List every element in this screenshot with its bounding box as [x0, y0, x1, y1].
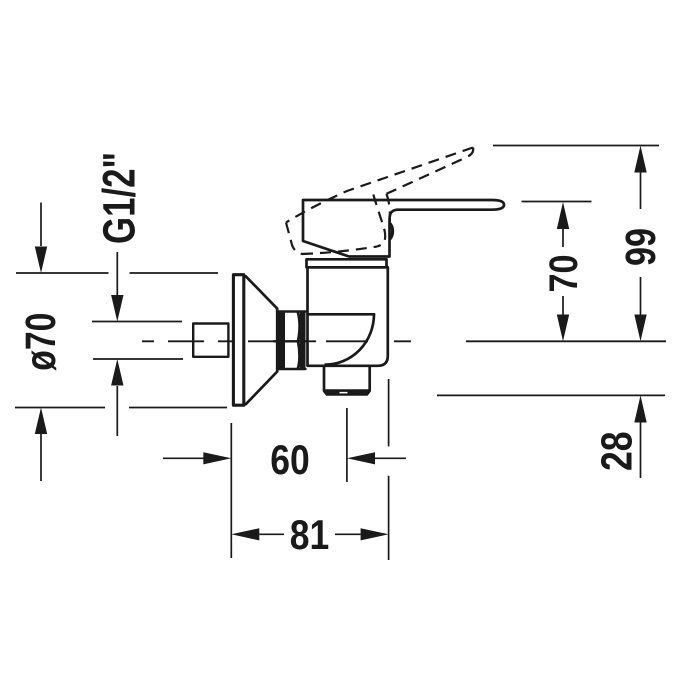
svg-text:G1/2": G1/2": [94, 152, 145, 244]
dim 99 bottom arrow: [640, 277, 642, 315]
raised lever dashed front edge: [373, 195, 385, 247]
hose outlet bottom band: [323, 389, 371, 396]
hex nut bottom edge: [278, 368, 306, 370]
extension line 28 bottom: [437, 394, 665, 396]
body inlet split line: [308, 313, 375, 316]
svg-text:28: 28: [592, 431, 641, 471]
hose outlet sides: [324, 366, 370, 390]
extension line 99 top: [493, 145, 659, 147]
escutcheon cone: [246, 276, 277, 404]
hex nut chamfer arc upper: [298, 312, 300, 341]
hex nut left face bar: [278, 311, 285, 369]
dim 99 top arrow: [640, 173, 642, 210]
dim 28 arrow: [640, 423, 642, 479]
cartridge collar ring: [307, 259, 387, 267]
dim 81 left arrow: [259, 533, 284, 535]
raised lever dashed fillet: [387, 194, 390, 222]
raised lever dashed underside: [387, 148, 474, 194]
hose outlet band highlight: [340, 392, 348, 394]
raised lever dashed bottom edge: [302, 247, 377, 255]
extension line body front: [388, 379, 390, 560]
dim 60 right arrow: [375, 457, 406, 459]
raised lever dashed rear edge: [286, 223, 302, 255]
extension line wall face: [230, 423, 232, 558]
svg-text:99: 99: [617, 228, 665, 266]
hex nut mid edge: [274, 340, 308, 342]
extension line G1/2 bottom: [93, 358, 183, 360]
lever handle (closed position, solid outline): [303, 200, 504, 257]
dim 70 bottom arrow: [562, 296, 564, 315]
escutcheon wall plate: [233, 275, 243, 406]
svg-text:ø70: ø70: [17, 313, 65, 371]
dim 60 left arrow: [163, 457, 204, 459]
body internal quarter arc: [326, 314, 374, 364]
hex nut chamfer arc lower: [298, 342, 300, 369]
center line right reference segment: [466, 340, 666, 342]
G1/2 bottom arrow: [116, 386, 118, 436]
svg-text:81: 81: [290, 511, 330, 558]
extension line 70 top: [522, 201, 592, 203]
extension line dia70 top: [16, 272, 218, 274]
G1/2 top arrow: [116, 252, 118, 295]
hex nut right face bar: [300, 311, 306, 369]
dia70 bottom arrow: [40, 434, 42, 481]
wall supply pipe stub: [193, 324, 228, 357]
raised lever dashed top edge: [286, 148, 473, 223]
dim 81 right arrow: [335, 533, 361, 535]
extension line outlet center: [346, 408, 348, 482]
raised lever fillet bulge: [390, 224, 393, 240]
hex nut top edge: [278, 310, 306, 312]
extension line dia70 bottom: [15, 407, 227, 409]
svg-text:70: 70: [542, 255, 586, 293]
dim 70 top arrow: [562, 229, 564, 247]
extension line G1/2 top: [92, 321, 182, 323]
mixer body: [308, 267, 388, 366]
svg-text:60: 60: [270, 436, 310, 483]
center line dash-dot: [142, 340, 411, 342]
dia70 top arrow: [40, 203, 42, 247]
